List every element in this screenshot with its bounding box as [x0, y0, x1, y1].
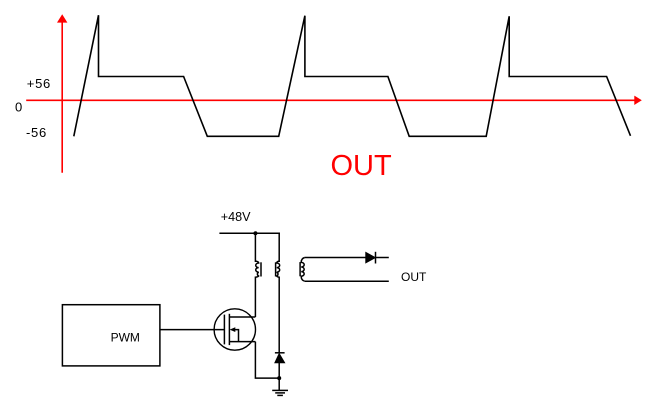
- core bar of L2: [299, 262, 301, 276]
- wire rail to primary winding L1a (vertical): [254, 233, 256, 262]
- wire +48V rail (horizontal): [219, 232, 280, 234]
- svg-text:PWM: PWM: [111, 330, 140, 344]
- inductor L1a primary winding (arcs bulge left): [255, 261, 258, 277]
- transistor Q1 MOSFET body circle: [214, 309, 255, 350]
- core bar of L1b: [275, 262, 277, 276]
- wire L1b to diode D1 (vertical): [278, 277, 280, 353]
- wire source to ground node: [255, 342, 279, 379]
- wire secondary top to diode D2: [305, 257, 366, 259]
- Q1 body arrow (points left): [230, 327, 236, 332]
- wire L1a to MOSFET drain (vertical): [254, 277, 256, 318]
- Q1 gate bar: [223, 315, 225, 345]
- wire secondary bottom to OUT: [305, 280, 389, 282]
- svg-text:-56: -56: [26, 125, 47, 140]
- axis Y (red vertical axis with arrow): [57, 14, 67, 173]
- svg-text:0: 0: [15, 99, 22, 114]
- svg-text:+56: +56: [27, 76, 51, 91]
- wire to ground symbol: [278, 378, 280, 390]
- wire D2 cathode to OUT: [376, 257, 389, 259]
- diode D1 (freewheel, pointing up): [275, 352, 285, 354]
- core bar of L1a: [260, 262, 262, 276]
- svg-text:+48V: +48V: [221, 210, 251, 224]
- wire D1 anode to ground node: [278, 363, 280, 378]
- inductor L2 secondary winding (arcs bulge right): [301, 258, 305, 282]
- svg-text:OUT: OUT: [331, 150, 393, 182]
- axis X (red horizontal axis with arrow): [26, 96, 642, 105]
- node junction dot at ground: [277, 376, 281, 380]
- inductor L1b primary winding (arcs bulge right): [277, 261, 280, 277]
- Q1 channel bar: [228, 314, 230, 345]
- Q1 drain stub: [229, 316, 255, 318]
- waveform trace: [74, 15, 631, 136]
- wire PWM to gate: [160, 329, 225, 331]
- PWM box: [62, 305, 159, 366]
- ground: [272, 390, 288, 395]
- node junction dot on +48V rail: [253, 231, 257, 235]
- svg-text:OUT: OUT: [401, 270, 427, 284]
- diode D2 (output rectifier, pointing right): [366, 253, 376, 263]
- wire rail corner to primary winding L1b (vertical): [278, 233, 280, 262]
- Q1 source stub: [229, 341, 255, 343]
